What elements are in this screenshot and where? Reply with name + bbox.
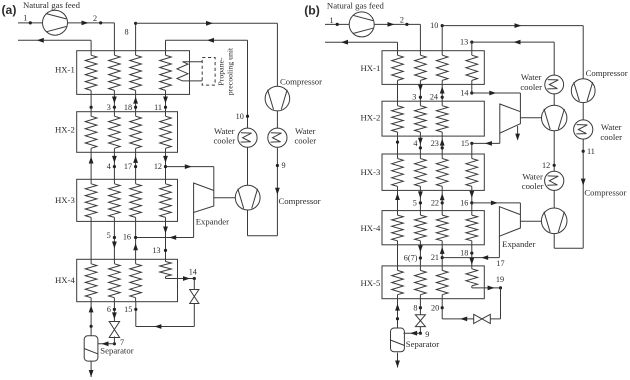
svg-text:(a): (a): [2, 3, 17, 17]
svg-text:6: 6: [107, 305, 111, 314]
svg-text:3: 3: [412, 92, 416, 101]
svg-text:15: 15: [461, 139, 469, 148]
svg-text:precooling unit: precooling unit: [226, 47, 235, 95]
svg-text:8: 8: [124, 27, 128, 36]
svg-text:Water: Water: [521, 72, 542, 82]
svg-text:18: 18: [460, 249, 468, 258]
svg-text:HX-1: HX-1: [361, 63, 381, 73]
svg-text:(b): (b): [304, 3, 320, 17]
svg-text:9: 9: [425, 330, 429, 339]
svg-text:14: 14: [460, 89, 468, 98]
svg-text:Water: Water: [295, 126, 316, 136]
svg-text:HX-4: HX-4: [55, 275, 75, 285]
svg-text:16: 16: [460, 199, 468, 208]
svg-text:11: 11: [587, 147, 595, 156]
svg-text:HX-3: HX-3: [361, 167, 381, 177]
svg-text:HX-2: HX-2: [55, 125, 75, 135]
svg-text:21: 21: [431, 253, 439, 262]
svg-text:17: 17: [124, 162, 132, 171]
svg-text:10: 10: [236, 112, 244, 121]
svg-text:13: 13: [152, 246, 160, 255]
svg-text:11: 11: [154, 103, 162, 112]
svg-text:6(7): 6(7): [404, 254, 418, 263]
svg-text:2: 2: [93, 14, 97, 23]
svg-text:Compressor: Compressor: [280, 76, 322, 86]
svg-text:23: 23: [431, 139, 439, 148]
svg-text:HX-1: HX-1: [55, 64, 75, 74]
svg-text:5: 5: [107, 231, 111, 240]
svg-text:2: 2: [400, 15, 404, 24]
svg-text:16: 16: [123, 232, 131, 241]
svg-text:4: 4: [107, 162, 111, 171]
svg-text:12: 12: [154, 162, 162, 171]
svg-text:22: 22: [431, 199, 439, 208]
svg-text:HX-5: HX-5: [361, 278, 381, 288]
svg-text:Compressor: Compressor: [279, 196, 321, 206]
svg-text:14: 14: [189, 268, 197, 277]
svg-text:HX-3: HX-3: [55, 195, 75, 205]
svg-text:12: 12: [542, 161, 550, 170]
svg-text:Expander: Expander: [502, 239, 535, 249]
svg-text:8: 8: [413, 303, 417, 312]
svg-text:Water: Water: [214, 126, 235, 136]
svg-text:24: 24: [430, 92, 438, 101]
svg-text:4: 4: [413, 139, 417, 148]
svg-text:17: 17: [496, 259, 504, 268]
svg-text:15: 15: [124, 305, 132, 314]
svg-text:Compressor: Compressor: [586, 68, 628, 78]
svg-text:13: 13: [460, 38, 468, 47]
svg-text:3: 3: [107, 103, 111, 112]
svg-text:Expander: Expander: [196, 217, 229, 227]
svg-text:Separator: Separator: [100, 346, 133, 356]
svg-text:cooler: cooler: [294, 136, 316, 146]
svg-text:20: 20: [431, 303, 439, 312]
svg-text:HX-2: HX-2: [361, 112, 381, 122]
svg-text:cooler: cooler: [213, 136, 235, 146]
svg-text:Water: Water: [601, 122, 622, 132]
svg-text:Separator: Separator: [406, 339, 439, 349]
svg-text:10: 10: [430, 21, 438, 30]
svg-text:1: 1: [329, 16, 333, 25]
svg-text:Propane-: Propane-: [216, 57, 225, 86]
svg-text:9: 9: [282, 161, 286, 170]
svg-text:cooler: cooler: [520, 82, 542, 92]
svg-text:Water: Water: [522, 171, 543, 181]
svg-text:Compressor: Compressor: [584, 187, 626, 197]
svg-text:HX-4: HX-4: [361, 223, 381, 233]
svg-text:Natural gas feed: Natural gas feed: [327, 0, 385, 10]
svg-text:7: 7: [120, 338, 124, 347]
svg-text:Natural gas feed: Natural gas feed: [23, 0, 81, 10]
svg-text:5: 5: [413, 199, 417, 208]
svg-text:cooler: cooler: [522, 181, 544, 191]
svg-text:cooler: cooler: [600, 132, 622, 142]
svg-text:18: 18: [124, 103, 132, 112]
svg-text:19: 19: [496, 275, 504, 284]
svg-text:1: 1: [23, 14, 27, 23]
